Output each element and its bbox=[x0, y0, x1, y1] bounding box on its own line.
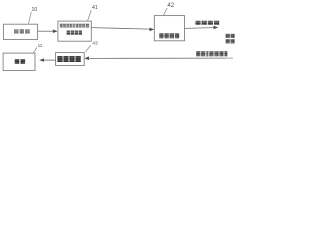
text 波形/状態情報 bbox=[196, 51, 227, 56]
leader line 43 bbox=[85, 45, 91, 51]
box panel 10 bbox=[3, 24, 37, 39]
leader line 11 bbox=[33, 48, 37, 53]
box pen 11 bbox=[3, 53, 35, 70]
svg-text:41: 41 bbox=[92, 5, 98, 11]
leader line 10 bbox=[29, 12, 32, 24]
text アナログ/デジタル bbox=[60, 24, 89, 28]
leader line 42 bbox=[164, 8, 168, 15]
box ADC 41 bbox=[58, 21, 91, 41]
svg-text:11: 11 bbox=[38, 43, 43, 48]
wire arrow external to amplifier (waveform info) bbox=[89, 57, 226, 59]
wire arrow ADC to controller bbox=[92, 28, 150, 30]
text 位置情報 bbox=[195, 21, 219, 25]
svg-text:43: 43 bbox=[92, 41, 98, 47]
text 外部 bbox=[226, 34, 235, 38]
text 変換装置 bbox=[67, 30, 82, 35]
wire arrow amplifier to pen bbox=[44, 59, 56, 61]
box amplifier 43 bbox=[56, 53, 85, 66]
text パネル bbox=[14, 29, 30, 34]
svg-text:10: 10 bbox=[32, 7, 38, 13]
wire arrow panel to ADC bbox=[38, 30, 53, 32]
leader line 41 bbox=[88, 10, 92, 21]
svg-text:42: 42 bbox=[167, 3, 174, 9]
text 増幅装置 bbox=[57, 56, 80, 62]
text ペン bbox=[15, 59, 25, 64]
box controller 42 bbox=[154, 16, 184, 41]
text 装置 bbox=[226, 39, 235, 43]
text 制御装置 bbox=[159, 33, 179, 38]
wire arrow controller to external (position info) bbox=[185, 27, 214, 30]
